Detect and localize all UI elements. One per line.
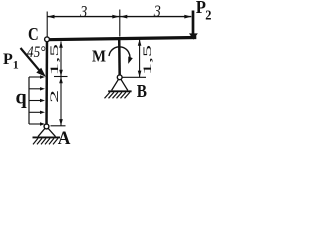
svg-text:1,5: 1,5 <box>47 44 61 75</box>
support A: pin triangle <box>38 127 56 137</box>
dimension arrow middle pointing right <box>112 15 119 19</box>
node C circle <box>45 37 50 42</box>
support B: ground line <box>108 90 131 92</box>
arrow up from tick <box>59 77 63 84</box>
node B circle <box>117 75 122 80</box>
tick at B level <box>122 76 146 78</box>
right dimension line 1,5 <box>139 40 141 78</box>
svg-text:A: A <box>58 128 71 149</box>
wire: top dimension line <box>48 16 192 18</box>
node A circle <box>44 124 49 129</box>
q arrow 4 <box>29 111 41 113</box>
q arrow 1 <box>29 76 41 78</box>
support B: pin triangle <box>112 77 128 90</box>
dimension arrow right (tip at P2 shaft) <box>184 15 191 19</box>
svg-text:B: B <box>137 81 147 101</box>
svg-text:2: 2 <box>205 8 211 23</box>
beam C to right end <box>47 38 197 40</box>
svg-text:q: q <box>16 87 27 109</box>
arrow up to beam <box>59 41 63 48</box>
support B: hatching <box>105 92 131 98</box>
svg-text:2: 2 <box>49 89 61 103</box>
left dimension line 1,5 and 2 <box>60 42 62 126</box>
distributed load q: left connecting line <box>28 77 30 124</box>
node: left extension line at C <box>46 12 48 37</box>
arrow down to tick <box>138 71 142 78</box>
column C to A <box>45 39 48 126</box>
svg-text:3: 3 <box>79 2 87 21</box>
moment M arc <box>109 47 130 61</box>
q arrow 2 <box>29 88 41 90</box>
svg-text:P: P <box>3 51 13 68</box>
dimension arrow left (tip at C extension) <box>48 15 55 19</box>
svg-text:1,5: 1,5 <box>142 44 154 75</box>
svg-text:1: 1 <box>13 58 19 72</box>
node: middle extension line <box>119 10 121 37</box>
svg-text:45°: 45° <box>27 44 46 61</box>
q arrow 3 <box>29 100 41 102</box>
arrow down to A tick <box>59 119 63 126</box>
force P2 arrow <box>192 11 195 35</box>
arrow up to beam <box>138 39 142 46</box>
q arrow 5 <box>29 123 41 125</box>
svg-text:3: 3 <box>153 2 161 21</box>
column hanger to B <box>118 38 121 78</box>
tick at P1 level <box>54 76 68 78</box>
svg-text:C: C <box>28 24 39 44</box>
dimension arrow middle pointing left <box>120 15 127 19</box>
tick at A level <box>51 125 66 127</box>
arrow down to tick <box>59 70 63 77</box>
support A: hatching <box>33 138 58 144</box>
support A: ground line <box>33 136 61 138</box>
force P1 arrow <box>21 48 40 70</box>
svg-text:M: M <box>92 47 106 66</box>
